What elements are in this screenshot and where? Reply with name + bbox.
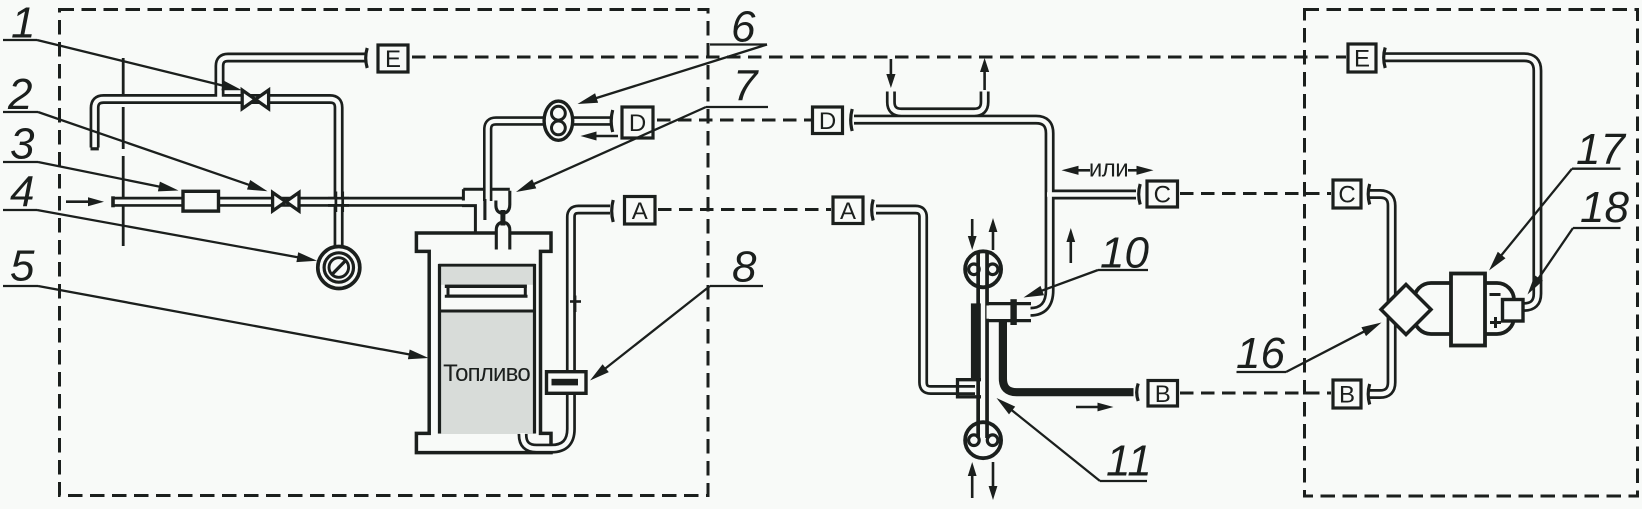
pipe to connector E (left) [220,58,367,99]
main fuel inlet line [113,197,462,207]
svg-text:10: 10 [1100,229,1149,278]
drip funnel 7 [496,201,501,214]
connector box A (left) [625,197,656,225]
svg-text:A: A [840,198,856,225]
open stub end cap [91,147,99,150]
flowmeter glass tube 11 [976,253,989,438]
filler neck top plate line [463,188,510,191]
svg-text:D: D [819,108,836,135]
leader label 4 to gauge [3,209,37,211]
pipe connector E (right) to igniter 18 [1385,57,1537,307]
svg-text:5: 5 [10,242,35,291]
connector box C (right) [1333,180,1361,208]
flowmeter bottom rotor [965,422,1001,458]
flow arrow at connector D (left) [594,135,619,138]
junction of main line and gauge riser [328,197,349,200]
svg-text:D: D [629,110,646,137]
vent arrow down [890,59,893,77]
upper pipe through valve 1 down to gauge [95,99,339,246]
flowmeter inlet flange [958,380,982,397]
leader label 18 to igniter [1573,227,1621,229]
connector box A (middle) [833,197,863,224]
pipe connector B (right) to mixer 16 [1368,317,1392,394]
main line end cap [111,196,115,207]
pipe pump 6 to connector D [572,116,611,125]
vent U-bend on D line [891,92,985,113]
leader label 2 to valve 2 [3,111,38,113]
connector box D (left) [622,107,653,138]
right dashed enclosure [1305,10,1638,497]
flowmeter float [971,303,981,380]
svg-text:4: 4 [10,168,34,217]
valve 1 [242,90,268,109]
svg-text:11: 11 [1106,437,1152,486]
svg-text:B: B [1339,382,1355,409]
flowmeter top rotor [965,251,1001,287]
pipe connector A (middle) to flowmeter [876,210,975,391]
pipe bores (inner strokes) [220,58,367,99]
leader label 11 to flowmeter [1100,480,1147,482]
svg-text:C: C [1154,182,1171,209]
pipe connector C (right) to mixer 16 [1368,194,1392,302]
leader label 3 to filter [3,161,38,163]
leader label 10 to fitting [1098,269,1148,271]
pressure gauge 4 [318,247,360,289]
svg-text:1: 1 [11,0,35,48]
dashed link B-B [1180,392,1331,395]
tank outer shell [416,233,551,453]
leader label 17 to chamber [1572,168,1621,170]
svg-text:E: E [1354,46,1370,73]
dashed link D-D [657,119,811,122]
piston plate inside tank [448,286,525,296]
upward flow arrow on riser [1070,239,1073,263]
mixer 16 diamond [1381,285,1431,335]
tank inner walls [438,264,441,434]
leader label 7 to funnel [706,106,768,108]
svg-text:6: 6 [731,3,756,52]
svg-text:17: 17 [1576,125,1626,174]
svg-text:C: C [1338,182,1355,209]
dashed link A-A [658,208,831,211]
svg-text:E: E [385,46,401,73]
thermocouple cross mark [573,296,576,313]
svg-text:7: 7 [733,62,759,111]
svg-text:16: 16 [1236,329,1285,378]
filler neck step wall [462,189,465,200]
connector box B (middle) [1148,381,1178,407]
fuel tank 5 interior fill [438,265,536,434]
svg-text:2: 2 [7,70,32,119]
metering pump 6 [544,101,573,140]
valve 2 [273,192,299,211]
vertical centerline [122,58,125,246]
svg-text:8: 8 [732,243,757,292]
connector box D (middle) [813,107,843,134]
polarity plus [1490,321,1501,324]
polarity minus [1490,293,1501,296]
flowmeter top arrow up [992,229,995,250]
fitting 10 connection [987,306,1031,319]
svg-text:3: 3 [10,120,35,169]
leader label 5 to tank [3,285,38,287]
igniter 18 [1503,300,1524,322]
leader label 6 to pump [710,43,767,45]
flowmeter bottom arrow up [971,473,974,498]
flow arrow into main line [66,200,91,203]
svg-text:B: B [1155,381,1171,408]
combustion chamber 17 [1451,274,1485,346]
filter 3 [183,191,219,211]
tank inner liner top [439,264,536,267]
connector box B (right) [1333,380,1361,408]
connector box E (left) [378,45,408,72]
leader label 1 to valve 1 [3,39,37,41]
burner body capsule [1414,283,1514,334]
flowmeter top arrow down [971,219,974,239]
pipe connector D (middle) down to fitting 10 [854,120,1050,312]
pipe connector C (middle) to riser [1052,190,1136,200]
either-direction arrows with text [1076,169,1091,172]
svg-text:18: 18 [1580,183,1629,232]
pipe connector A (left) to tank bottom [523,210,610,449]
dashed link C-C [1180,192,1331,195]
level sensor 8 [547,372,587,394]
left dashed enclosure [60,10,709,496]
pipe pump 6 to funnel 7 [488,121,545,201]
leader label 8 to sensor [710,285,763,287]
svg-text:или: или [1089,156,1128,183]
dashed link E-E [412,56,1346,59]
vent arrow up [983,69,986,90]
main line lower wall down to tank flange [462,206,475,232]
connector box E (right) [1348,44,1376,72]
leader label 16 to mixer [1237,371,1287,373]
flow arrow to connector B [1076,406,1101,409]
bold line to connector B [1003,322,1134,392]
funnel feed tube extension [483,199,486,220]
connector box C (middle) [1147,181,1178,207]
flowmeter bottom arrow down [992,462,995,489]
svg-text:Топливо: Топливо [443,360,530,387]
svg-text:A: A [632,198,648,225]
